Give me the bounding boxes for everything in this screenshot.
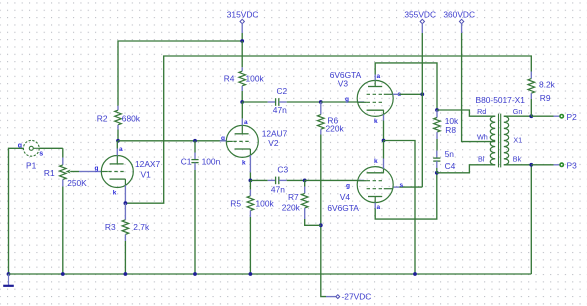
transformer X1 primary winding xyxy=(490,116,495,165)
svg-text:-27VDC: -27VDC xyxy=(342,291,372,301)
svg-text:360VDC: 360VDC xyxy=(443,10,475,20)
junction V2 plate node xyxy=(240,100,244,104)
svg-text:g: g xyxy=(95,165,99,172)
svg-text:220k: 220k xyxy=(326,123,345,133)
wire V4 plate to C4 junction xyxy=(375,173,437,219)
net 355VDC connector xyxy=(420,19,424,23)
resistor R7 pin stub top xyxy=(304,180,306,186)
resistor R9 xyxy=(528,79,535,94)
junction ground xyxy=(7,272,11,276)
capacitor C4 pin stub top xyxy=(436,151,438,159)
junction V4 plate node xyxy=(435,171,439,175)
junction cathodes xyxy=(382,139,386,143)
wire Bl lead xyxy=(437,165,495,173)
svg-text:355VDC: 355VDC xyxy=(404,10,436,20)
svg-text:Bk: Bk xyxy=(513,155,522,164)
svg-text:X1: X1 xyxy=(513,135,522,144)
resistor R3 pin stub top xyxy=(124,203,126,220)
wire 355VDC to V4 screen xyxy=(399,186,422,188)
triode V1 12AX7 xyxy=(101,156,133,188)
potentiometer R1 xyxy=(60,165,67,180)
potentiometer R1 pin stub bottom xyxy=(62,180,64,187)
capacitor C3 xyxy=(275,177,277,185)
svg-text:a: a xyxy=(377,73,381,80)
svg-text:250K: 250K xyxy=(67,178,87,188)
wire V2 cathode to C3 xyxy=(250,179,267,181)
svg-text:100k: 100k xyxy=(246,74,265,84)
junction Gn node xyxy=(529,114,533,118)
svg-text:C2: C2 xyxy=(277,86,288,96)
wire transformer Bk to ground rail xyxy=(530,165,532,274)
junction R7 bias tap xyxy=(319,223,323,227)
resistor R6 pin stub top xyxy=(320,102,322,115)
wire ground rail xyxy=(9,273,532,275)
capacitor C4 xyxy=(433,157,440,159)
svg-text:R1: R1 xyxy=(44,168,55,178)
wire Wh lead xyxy=(462,33,496,142)
net -27VDC connector xyxy=(336,295,340,299)
wire V3 plate to R8 junction xyxy=(375,63,437,110)
svg-text:g: g xyxy=(346,183,350,190)
svg-text:Rd: Rd xyxy=(477,107,486,116)
svg-text:R2: R2 xyxy=(97,113,108,123)
resistor R6 pin stub bottom xyxy=(320,129,322,134)
wire Gn lead xyxy=(504,115,532,117)
V4 plate pin stub xyxy=(374,203,376,209)
resistor R3 xyxy=(122,220,129,235)
wire R9 to Gn node xyxy=(530,99,532,116)
triode V2 12AU7 xyxy=(226,125,258,157)
junction 355VDC screen tap xyxy=(420,92,424,96)
potentiometer R1 pin stub top xyxy=(62,158,64,165)
wire V2 cathode to junction xyxy=(249,172,251,180)
svg-text:R7: R7 xyxy=(288,192,299,202)
net 315VDC pin stub xyxy=(241,23,243,33)
V3 screen pin stub xyxy=(393,93,400,95)
wire Rd lead xyxy=(437,110,495,116)
wire V3 cathode to common junction xyxy=(383,121,385,141)
junction C1 tap xyxy=(193,139,197,143)
wire R5 to rail xyxy=(249,217,251,274)
V3 grid pin stub xyxy=(358,101,365,103)
capacitor C2 xyxy=(275,98,277,106)
resistor R6 xyxy=(318,115,325,130)
junction R6 tap xyxy=(319,100,323,104)
junction V1 plate node xyxy=(116,139,120,143)
svg-text:R5: R5 xyxy=(230,199,241,209)
svg-text:s: s xyxy=(39,151,43,158)
wire 355VDC line xyxy=(421,33,423,94)
svg-text:100n: 100n xyxy=(202,156,221,166)
svg-text:k: k xyxy=(374,118,378,125)
capacitor C1 xyxy=(191,159,198,161)
wire C2 to V3 grid xyxy=(279,101,287,103)
junction R3-rail xyxy=(124,272,128,276)
svg-text:C1: C1 xyxy=(181,156,192,166)
port P3 xyxy=(560,163,563,166)
resistor R5 pin stub bottom xyxy=(249,211,251,218)
V2 plate pin stub xyxy=(241,102,243,119)
svg-text:V1: V1 xyxy=(141,170,152,180)
svg-text:k: k xyxy=(374,158,378,165)
wire 315VDC stub to junction xyxy=(241,33,243,41)
svg-text:12AX7: 12AX7 xyxy=(135,159,160,169)
svg-text:6V6GTA: 6V6GTA xyxy=(327,203,359,213)
svg-text:47n: 47n xyxy=(271,184,285,194)
svg-text:680k: 680k xyxy=(122,113,141,123)
svg-text:g: g xyxy=(345,96,349,103)
resistor R4 pin stub bottom xyxy=(241,86,243,91)
wire R7 junction to V4 grid xyxy=(305,179,358,181)
wire R6 to -27VDC bias line xyxy=(321,135,326,297)
V3 plate pin stub xyxy=(374,75,376,81)
svg-text:P1: P1 xyxy=(26,161,37,171)
wire V3 cathode junction to V4 cathode xyxy=(383,141,385,159)
resistor R9 pin stub bottom xyxy=(530,93,532,99)
net 315VDC connector xyxy=(240,19,244,23)
svg-text:Wh: Wh xyxy=(477,132,488,141)
svg-text:C4: C4 xyxy=(445,161,456,171)
svg-text:a: a xyxy=(377,204,381,211)
svg-text:R8: R8 xyxy=(445,125,456,135)
wire R3 to rail xyxy=(124,241,126,274)
resistor R7 pin stub bottom xyxy=(304,208,306,219)
svg-text:R9: R9 xyxy=(540,93,551,103)
junction R7 top xyxy=(303,179,307,183)
svg-text:100k: 100k xyxy=(256,199,275,209)
resistor R5 xyxy=(247,196,254,211)
capacitor C1 pin stub top xyxy=(194,141,196,153)
svg-text:220k: 220k xyxy=(282,203,301,213)
resistor R9 pin stub top xyxy=(530,72,532,79)
resistor R7 xyxy=(301,193,308,208)
svg-text:C3: C3 xyxy=(277,164,288,174)
resistor R8 xyxy=(434,118,441,133)
wire R8 to C4 xyxy=(436,139,438,151)
connector P1 xyxy=(23,140,39,156)
wire C4 to V4 plate junction xyxy=(436,168,438,173)
svg-text:47n: 47n xyxy=(273,105,287,115)
resistor R8 pin stub top xyxy=(436,110,438,118)
wire C1 to rail xyxy=(194,170,196,274)
resistor R4 pin stub top xyxy=(241,41,243,67)
net 355VDC pin stub xyxy=(421,23,423,33)
wire R1 wiper to V1 grid xyxy=(79,171,94,173)
junction C1-rail xyxy=(193,272,197,276)
resistor R3 pin stub bottom xyxy=(124,234,126,241)
V2 cathode pin stub xyxy=(249,155,251,172)
net 360VDC pin stub xyxy=(461,23,463,33)
V3 cathode pin stub xyxy=(383,114,385,120)
capacitor C4 pin stub bottom xyxy=(436,161,438,168)
net -27VDC pin stub xyxy=(326,296,336,298)
junction R1-rail xyxy=(61,272,65,276)
svg-text:V3: V3 xyxy=(338,79,349,89)
resistor R2 pin stub top xyxy=(117,106,119,111)
resistor R2 pin stub bottom xyxy=(117,125,119,130)
junction cathode-rail xyxy=(413,272,417,276)
wire NFB from V1 cathode to R9 top xyxy=(125,56,531,203)
V2 grid pin stub xyxy=(220,140,227,142)
svg-text:B80-5017-X1: B80-5017-X1 xyxy=(476,95,526,105)
svg-text:k: k xyxy=(242,160,246,167)
wire Bk lead xyxy=(504,164,532,166)
svg-text:8.2k: 8.2k xyxy=(539,80,556,90)
junction V3 plate node xyxy=(435,108,439,112)
wire R7 to bias line xyxy=(305,219,321,225)
wire P1 ground to rail xyxy=(9,148,24,274)
junction R5-rail xyxy=(249,272,253,276)
wire R1 bottom to rail xyxy=(62,187,64,275)
port P2 xyxy=(560,115,563,118)
svg-text:s: s xyxy=(400,182,404,189)
svg-text:Gn: Gn xyxy=(513,107,523,116)
wire plate node to V2 grid xyxy=(118,140,226,142)
junction V2 cathode xyxy=(249,179,253,183)
wire P1 signal to R1 xyxy=(39,147,63,149)
transformer X1 secondary winding xyxy=(504,116,509,165)
wire V3 screen to 355VDC line xyxy=(399,93,422,95)
pentode V3 6V6GTA xyxy=(357,80,393,116)
resistor R2 xyxy=(115,110,122,125)
svg-text:5n: 5n xyxy=(445,149,455,159)
wire Gn node to P2 xyxy=(531,115,553,117)
V4 screen pin stub xyxy=(393,186,400,188)
junction V1 cathode xyxy=(124,201,128,205)
svg-text:P3: P3 xyxy=(567,161,578,171)
pentode V4 6V6GTA xyxy=(357,167,393,203)
V1 cathode pin stub xyxy=(124,185,126,203)
wire R4 to V2 plate junction xyxy=(241,91,243,102)
resistor R8 pin stub bottom xyxy=(436,132,438,139)
wire 315VDC rail to R2 top xyxy=(118,41,242,106)
svg-text:a: a xyxy=(244,119,248,126)
V1 plate pin stub xyxy=(116,141,118,149)
svg-text:R3: R3 xyxy=(105,222,116,232)
capacitor C1 pin stub bottom xyxy=(194,163,196,170)
wire cathode junction to ground xyxy=(384,141,416,275)
svg-text:12AU7: 12AU7 xyxy=(262,129,288,139)
wire R2 bottom to V1 plate junction xyxy=(117,130,119,141)
resistor R4 xyxy=(239,71,246,86)
svg-text:2.7k: 2.7k xyxy=(133,222,150,232)
wire Bk node to P3 xyxy=(531,164,553,166)
svg-text:a: a xyxy=(119,146,123,153)
svg-text:k: k xyxy=(113,189,117,196)
svg-text:R4: R4 xyxy=(224,74,235,84)
junction Bk node xyxy=(529,163,533,167)
transformer X1 core xyxy=(498,114,500,168)
junction 315VDC xyxy=(240,39,244,43)
V4 grid pin stub xyxy=(358,179,365,181)
wire V2 plate node to C2 xyxy=(242,101,268,103)
svg-text:315VDC: 315VDC xyxy=(227,10,259,20)
wire C3 to R7 junction xyxy=(279,179,287,181)
svg-text:V2: V2 xyxy=(268,138,279,148)
ground xyxy=(8,274,10,285)
svg-text:P2: P2 xyxy=(567,112,578,122)
net 360VDC connector xyxy=(459,19,463,23)
V4 cathode pin stub xyxy=(383,159,385,169)
resistor R5 pin stub top xyxy=(249,180,251,189)
svg-text:V4: V4 xyxy=(340,192,351,202)
svg-text:Bl: Bl xyxy=(478,155,485,164)
